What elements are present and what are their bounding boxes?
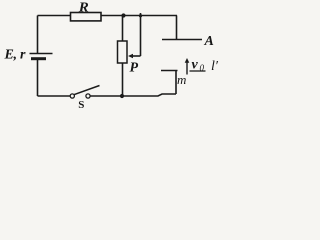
velocity arrow v0 head bbox=[185, 58, 190, 63]
battery E,r long plate bbox=[30, 53, 53, 55]
wire bottom middle bbox=[90, 94, 176, 96]
lower rail bar bbox=[161, 70, 178, 72]
svg-text:E, r: E, r bbox=[4, 48, 26, 63]
wire wiper branch horizontal bbox=[132, 55, 141, 57]
wire left (battery top lead) bbox=[37, 16, 39, 54]
svg-text:m: m bbox=[177, 72, 186, 87]
svg-text:S: S bbox=[78, 99, 84, 111]
svg-text:l′: l′ bbox=[211, 59, 219, 74]
velocity arrow v0 shaft bbox=[186, 62, 188, 75]
junction dot (top, wiper branch) bbox=[139, 14, 142, 17]
underline under v0 (rail segment) bbox=[190, 70, 206, 72]
junction dot (bottom, rheostat) bbox=[120, 94, 124, 98]
svg-text:A: A bbox=[204, 34, 214, 49]
wire top bbox=[38, 15, 178, 17]
switch S terminal circle right bbox=[86, 94, 90, 98]
rheostat wiper arrowhead bbox=[128, 54, 133, 59]
svg-text:P: P bbox=[130, 60, 139, 75]
svg-text:R: R bbox=[78, 0, 89, 15]
wire wiper branch vertical bbox=[140, 13, 142, 56]
svg-text:v: v bbox=[192, 58, 199, 73]
wire bottom left bbox=[38, 95, 71, 97]
junction dot (top, rheostat branch) bbox=[121, 13, 125, 17]
rheostat P box bbox=[118, 41, 128, 63]
switch S blade bbox=[74, 86, 99, 95]
switch S terminal circle left bbox=[70, 94, 74, 98]
wire left lower (battery bottom lead) bbox=[37, 59, 39, 97]
upper rail bbox=[162, 39, 202, 41]
wire rheostat bottom lead bbox=[122, 63, 124, 96]
battery E,r short plate bbox=[31, 57, 46, 60]
wire stub from top wire to upper rail bbox=[176, 16, 178, 40]
wire right vertical to lower rail bbox=[175, 71, 177, 95]
resistor R box bbox=[71, 13, 102, 21]
wire rheostat top lead bbox=[122, 16, 124, 42]
